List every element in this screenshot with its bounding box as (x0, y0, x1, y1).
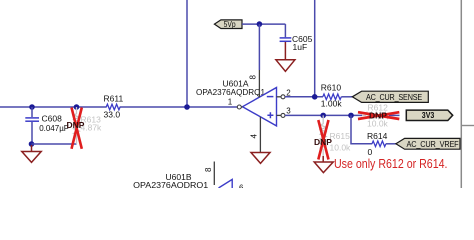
wire: bottom link from C608 to R613 (32, 143, 77, 145)
capacitor C605 (280, 24, 313, 52)
svg-text:DNP: DNP (67, 120, 85, 130)
resistor R611 (104, 93, 124, 119)
op-amp U601A (196, 70, 291, 152)
page border line (460, 0, 462, 188)
svg-text:33.0: 33.0 (104, 110, 121, 120)
pin 1 (242, 106, 243, 108)
pin 8 (258, 70, 260, 97)
svg-text:1uF: 1uF (293, 42, 308, 52)
ground below R615 (314, 156, 333, 173)
resistor R613 (DNP) (67, 107, 103, 149)
pin 4 (259, 117, 261, 152)
svg-text:8: 8 (204, 167, 213, 172)
svg-text:AC_CUR_SENSE: AC_CUR_SENSE (366, 93, 422, 102)
wire: 5Vp to junction and C605 (242, 23, 285, 25)
svg-text:1: 1 (228, 97, 233, 106)
node junction at (323.2,115.4) (320, 113, 326, 119)
node junction at (187,107) (184, 104, 190, 110)
wire: R611 right to op-amp pin1 (120, 106, 238, 108)
wire: R610 to AC_CUR_SENSE flag (341, 96, 353, 98)
svg-text:C608: C608 (42, 114, 63, 124)
power flag 5Vp (214, 20, 242, 29)
node junction at (31.5,144) (29, 141, 35, 147)
resistor R612 (DNP) (358, 103, 400, 129)
resistor R615 (DNP) (314, 115, 351, 159)
wire: vertical from top edge down to pin2 net (314, 0, 316, 97)
pin 3 (277, 114, 282, 116)
net flag AC_CUR_SENSE (352, 91, 428, 102)
triangle (partial) (219, 179, 233, 188)
svg-text:Use only R612 or R614.: Use only R612 or R614. (334, 156, 448, 171)
pin 2 (277, 96, 282, 98)
svg-text:3V3: 3V3 (422, 111, 435, 120)
svg-text:R614: R614 (367, 131, 388, 141)
ground below C605 (276, 42, 295, 71)
svg-text:1.00k: 1.00k (321, 99, 343, 109)
svg-text:DNP: DNP (314, 137, 332, 147)
wire: pin3 net down to R614 row (351, 115, 372, 143)
node junction at (351,115.4) (348, 113, 354, 119)
svg-text:DNP: DNP (369, 111, 387, 121)
net flag AC_CUR_VREF (396, 138, 460, 149)
svg-text:R615: R615 (330, 131, 351, 141)
resistor R610 (321, 83, 343, 109)
op-amp U601B (partial) (133, 162, 244, 193)
svg-text:OPA2376AQDRQ1: OPA2376AQDRQ1 (196, 87, 265, 97)
node junction at (314.7,96.8) (312, 94, 318, 100)
ground below U601A pin 4 (251, 153, 270, 164)
svg-text:3: 3 (286, 106, 291, 115)
svg-text:5Vp: 5Vp (224, 20, 236, 29)
svg-text:R611: R611 (104, 93, 124, 103)
svg-text:4: 4 (250, 134, 259, 139)
wire: main left net at y=107 (0, 106, 107, 108)
node junction at (76.5,107) (74, 104, 80, 110)
resistor R614 (367, 131, 388, 157)
wire: junction down to U601A pin 8 (258, 24, 260, 70)
svg-text:6: 6 (239, 184, 244, 189)
wire: pin2 net to R610 (285, 96, 323, 98)
ground below C608 (22, 145, 41, 162)
pin 8 (213, 162, 215, 186)
wire: R614 to AC_CUR_VREF flag (386, 143, 397, 145)
svg-text:AC_CUR_VREF: AC_CUR_VREF (407, 140, 459, 149)
capacitor C608 (25, 107, 68, 144)
svg-text:R610: R610 (321, 83, 342, 93)
power flag 3V3 (406, 110, 452, 120)
svg-text:OPA2376AQDRQ1: OPA2376AQDRQ1 (133, 180, 208, 188)
svg-text:8: 8 (249, 75, 258, 80)
svg-text:0.047µF: 0.047µF (39, 123, 68, 133)
svg-text:10.0k: 10.0k (330, 143, 352, 153)
wire: vertical from top edge to main net (186, 0, 188, 107)
wire: pin3 net (285, 114, 362, 116)
border zone tick (461, 125, 474, 127)
node junction at (259.4,24.1) (257, 21, 263, 27)
node junction at (32,107) (29, 104, 35, 110)
